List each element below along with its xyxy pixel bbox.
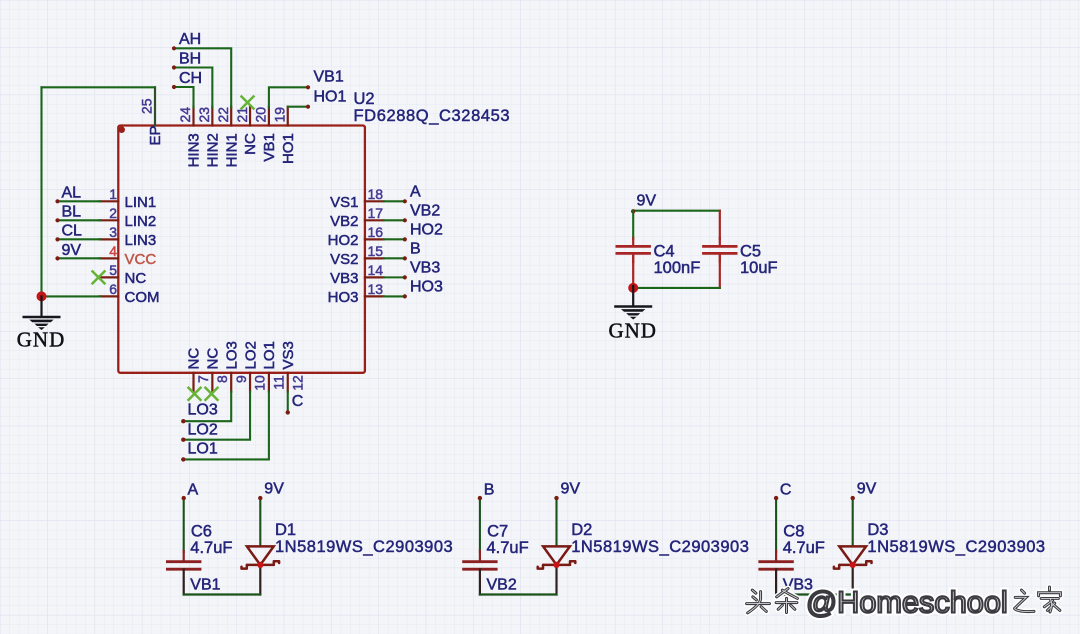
svg-text:VS2: VS2 — [330, 251, 358, 268]
pin name VB2 — [330, 213, 358, 230]
svg-text:9: 9 — [233, 375, 249, 383]
svg-text:9V: 9V — [561, 481, 581, 498]
svg-text:VB3: VB3 — [330, 270, 358, 287]
pin number 4 — [109, 243, 117, 259]
no-connect X on pin 21 — [241, 96, 255, 110]
label D2 — [571, 521, 592, 539]
svg-text:9V: 9V — [62, 242, 82, 259]
pin number 17 — [368, 205, 384, 221]
reference designator U2 — [354, 90, 375, 108]
svg-text:8: 8 — [214, 375, 230, 383]
value 10uF — [740, 259, 778, 277]
pin 14 VB3 stub right — [365, 276, 384, 278]
pin 2 LIN2 stub left — [100, 219, 119, 221]
svg-text:VB3: VB3 — [410, 259, 440, 276]
svg-text:100nF: 100nF — [654, 259, 701, 277]
wire net BL to pin 2 — [55, 218, 100, 222]
value 4.7uF — [190, 539, 232, 557]
capacitor C6 — [167, 551, 200, 595]
net label 9V decoupling — [637, 193, 657, 210]
svg-text:HIN3: HIN3 — [186, 133, 203, 167]
svg-text:HIN1: HIN1 — [223, 133, 240, 167]
wire net AL to pin 1 — [55, 199, 100, 203]
svg-text:U2: U2 — [354, 90, 375, 108]
svg-text:HIN2: HIN2 — [205, 133, 222, 167]
wire net CH to pin — [172, 85, 194, 108]
pin number 19 — [271, 107, 287, 123]
svg-text:1N5819WS_C2903903: 1N5819WS_C2903903 — [571, 538, 749, 556]
net label A — [410, 183, 421, 200]
svg-text:9V: 9V — [857, 481, 877, 498]
pin name VB3 — [330, 270, 358, 287]
pin name VCC — [125, 251, 157, 268]
pin 5 NC stub left — [100, 276, 119, 278]
pin number 20 — [253, 107, 269, 123]
pin name NC — [242, 133, 259, 155]
pin 10 LO2 stub bottom — [249, 373, 251, 392]
svg-text:LIN2: LIN2 — [125, 213, 157, 230]
svg-text:LO3: LO3 — [223, 341, 240, 369]
pin name VS3 — [280, 341, 297, 369]
pin number 2 — [109, 205, 117, 221]
junction dot decoupling GND — [628, 283, 638, 293]
net label HO3 — [410, 278, 443, 295]
wire C4 branch upper — [632, 211, 634, 239]
svg-text:NC: NC — [186, 348, 203, 370]
wire C6 to D1 bottom — [184, 593, 261, 595]
svg-text:LO1: LO1 — [261, 341, 278, 369]
svg-text:2: 2 — [109, 205, 117, 221]
net label HO2 — [410, 221, 443, 238]
capacitor C8 — [760, 551, 793, 595]
value 1N5819WS_C2903903 — [571, 538, 749, 556]
wire net A bootstrap — [182, 496, 186, 552]
wire net LO2 — [181, 392, 250, 442]
pin number 7 — [195, 375, 211, 383]
pin name LIN1 — [125, 194, 157, 211]
svg-text:B: B — [484, 481, 495, 498]
svg-text:C7: C7 — [487, 522, 508, 540]
svg-text:1N5819WS_C2903903: 1N5819WS_C2903903 — [275, 538, 453, 556]
pin name HO2 — [328, 232, 359, 249]
net label A — [188, 481, 199, 498]
svg-text:VB1: VB1 — [261, 133, 278, 161]
svg-text:NC: NC — [205, 348, 222, 370]
pin name LIN2 — [125, 213, 157, 230]
pin number 11 — [271, 375, 287, 390]
pin name VS2 — [330, 251, 358, 268]
watermark — [747, 585, 1061, 620]
svg-text:C5: C5 — [740, 243, 761, 261]
net label BL — [62, 204, 82, 221]
pin 19 HO1 stub top — [287, 107, 289, 126]
pin name HIN3 — [186, 133, 203, 167]
label C8 — [783, 522, 804, 540]
wire net LO1 — [181, 392, 269, 462]
GND label left — [17, 328, 66, 352]
svg-text:GND: GND — [17, 328, 66, 352]
svg-text:VCC: VCC — [125, 251, 157, 268]
svg-text:13: 13 — [368, 281, 384, 297]
wire net C from pin 12 VS3 — [286, 392, 290, 415]
no-connect X on pin 7 — [188, 387, 202, 401]
svg-text:C: C — [780, 481, 792, 498]
svg-text:HO2: HO2 — [410, 221, 443, 238]
wire net VB3 right — [384, 275, 407, 279]
pin number 10 — [252, 375, 268, 391]
wire net HO1 to pin 19 — [288, 105, 310, 109]
svg-text:COM: COM — [125, 289, 160, 306]
pin name HIN2 — [205, 133, 222, 167]
svg-text:1N5819WS_C2903903: 1N5819WS_C2903903 — [867, 538, 1045, 556]
svg-text:BL: BL — [62, 204, 82, 221]
pin number 8 — [214, 375, 230, 383]
net label AL — [62, 185, 82, 202]
pin number 23 — [196, 107, 212, 123]
pin 18 VS1 stub right — [365, 200, 384, 202]
wire net CL to pin 3 — [55, 237, 100, 241]
wire GND rail vertical — [40, 87, 42, 296]
svg-text:HO2: HO2 — [328, 232, 359, 249]
no-connect X on pin 8 — [205, 387, 219, 401]
pin 16 HO2 stub right — [365, 238, 384, 240]
pin number 9 — [233, 375, 249, 383]
net label 9V — [62, 242, 82, 259]
ground symbol right — [615, 286, 651, 320]
svg-text:BH: BH — [179, 50, 201, 67]
net label VB2 — [487, 577, 517, 594]
net label LO3 — [188, 402, 218, 419]
svg-text:VB1: VB1 — [314, 69, 344, 86]
wire 9V top rail — [631, 209, 720, 213]
pin name HO1 — [280, 133, 297, 164]
svg-text:NC: NC — [125, 270, 147, 287]
svg-text:@Homeschool: @Homeschool — [806, 585, 1008, 620]
label D3 — [867, 521, 888, 539]
svg-text:5: 5 — [109, 262, 117, 278]
net label VB1 — [190, 577, 220, 594]
net label 9V over D2 — [561, 481, 581, 498]
value 1N5819WS_C2903903 — [867, 538, 1045, 556]
pin 1 LIN1 stub left — [100, 200, 119, 202]
diode D3 1N5819WS schottky — [834, 546, 872, 594]
net label HO1 top — [314, 89, 347, 106]
svg-text:4: 4 — [109, 243, 117, 259]
ground symbol left — [24, 296, 60, 330]
label C5 — [740, 243, 761, 261]
svg-text:CH: CH — [179, 70, 202, 87]
wire net BH to pin — [172, 65, 212, 107]
wire net HO2 right — [384, 237, 407, 241]
diode D1 1N5819WS schottky — [242, 546, 280, 594]
net label B — [484, 481, 495, 498]
svg-text:C6: C6 — [191, 522, 212, 540]
pin name NC — [186, 348, 203, 370]
pin 6 COM stub left — [100, 295, 119, 297]
pin 4 VCC stub left — [100, 257, 119, 259]
net label VB1 top — [314, 69, 344, 86]
wire 9V bottom rail — [633, 287, 720, 289]
capacitor C5 — [704, 238, 737, 262]
svg-text:D2: D2 — [571, 521, 592, 539]
label C4 — [654, 243, 675, 261]
net label 9V over D3 — [857, 481, 877, 498]
pin name NC — [205, 348, 222, 370]
svg-text:9V: 9V — [264, 481, 284, 498]
value 4.7uF — [783, 539, 825, 557]
net label CH — [179, 70, 202, 87]
svg-text:HO1: HO1 — [280, 133, 297, 164]
net label LO1 — [188, 441, 218, 458]
pin number 21 — [234, 107, 250, 123]
svg-text:CL: CL — [62, 223, 83, 240]
pin 15 VS2 stub right — [365, 257, 384, 259]
label C7 — [487, 522, 508, 540]
svg-text:VS1: VS1 — [330, 194, 358, 211]
svg-text:LIN1: LIN1 — [125, 194, 157, 211]
net label AH — [179, 31, 201, 48]
pin number 5 — [109, 262, 117, 278]
pin name NC — [125, 270, 147, 287]
svg-text:NC: NC — [242, 133, 259, 155]
svg-text:6: 6 — [109, 281, 117, 297]
wire C8 to D3 bottom — [776, 593, 853, 595]
net label BH — [179, 50, 201, 67]
wire C4 branch lower — [632, 254, 634, 288]
svg-text:25: 25 — [139, 98, 155, 114]
pin 17 VB2 stub right — [365, 219, 384, 221]
pin name LO2 — [242, 341, 259, 369]
svg-text:C4: C4 — [654, 243, 675, 261]
pin number 18 — [368, 186, 384, 202]
svg-text:HO1: HO1 — [314, 89, 347, 106]
svg-text:AL: AL — [62, 185, 82, 202]
svg-text:C: C — [292, 393, 304, 410]
svg-text:HO3: HO3 — [328, 289, 359, 306]
part value FD6288Q_C328453 — [354, 107, 511, 125]
net label VB3 — [410, 259, 440, 276]
wire COM pin 6 to GND rail — [42, 295, 101, 297]
net label 9V over D1 — [264, 481, 284, 498]
svg-text:VB1: VB1 — [190, 577, 220, 594]
svg-text:23: 23 — [196, 107, 212, 123]
value 4.7uF — [487, 539, 529, 557]
svg-text:A: A — [188, 481, 199, 498]
wire net AH to pin — [172, 46, 231, 107]
pin 3 LIN3 stub left — [100, 238, 119, 240]
pin number 14 — [368, 262, 384, 278]
wire net B bootstrap — [478, 496, 482, 552]
svg-text:EP: EP — [147, 125, 164, 145]
svg-text:FD6288Q_C328453: FD6288Q_C328453 — [354, 107, 511, 125]
pin name HIN1 — [223, 133, 240, 167]
net label B — [410, 240, 421, 257]
net label C bottom of pin 12 — [292, 393, 304, 410]
svg-text:1: 1 — [109, 186, 117, 202]
pin 12 VS3 stub bottom — [287, 373, 289, 392]
wire C5 branch upper — [719, 211, 721, 239]
svg-text:4.7uF: 4.7uF — [190, 539, 232, 557]
net label CL — [62, 223, 83, 240]
wire 9V to D3 — [851, 496, 855, 547]
svg-text:VS3: VS3 — [280, 341, 297, 369]
GND label right — [608, 319, 657, 343]
svg-text:GND: GND — [608, 319, 657, 343]
svg-text:LIN3: LIN3 — [125, 232, 157, 249]
label C6 — [191, 522, 212, 540]
svg-text:VB2: VB2 — [330, 213, 358, 230]
wire net C bootstrap — [774, 496, 778, 552]
pin name VS1 — [330, 194, 358, 211]
wire net 9V to pin 4 — [55, 256, 100, 260]
svg-text:3: 3 — [109, 224, 117, 240]
svg-text:18: 18 — [368, 186, 384, 202]
pin 11 LO1 stub bottom — [268, 373, 270, 392]
svg-text:12: 12 — [289, 375, 305, 391]
pin 13 HO3 stub right — [365, 295, 384, 297]
pin name COM — [125, 289, 160, 306]
wire 9V to D2 — [554, 496, 558, 547]
wire C7 to D2 bottom — [480, 593, 557, 595]
wire net A right — [384, 199, 407, 203]
svg-text:19: 19 — [271, 107, 287, 123]
svg-text:11: 11 — [271, 375, 287, 390]
pin number 16 — [368, 224, 384, 240]
pin name VB1 — [261, 133, 278, 161]
svg-text:7: 7 — [195, 375, 211, 383]
capacitor C7 — [464, 551, 497, 595]
pin name LO1 — [261, 341, 278, 369]
svg-text:LO2: LO2 — [242, 341, 259, 369]
junction dot GND rail — [37, 291, 47, 301]
svg-text:4.7uF: 4.7uF — [487, 539, 529, 557]
svg-text:LO1: LO1 — [188, 441, 218, 458]
pin number 12 — [289, 375, 305, 391]
wire net LO3 — [181, 392, 231, 424]
svg-text:20: 20 — [253, 107, 269, 123]
wire net HO3 right — [384, 294, 407, 298]
svg-text:LO2: LO2 — [188, 422, 218, 439]
svg-text:LO3: LO3 — [188, 402, 218, 419]
pin 7 NC stub bottom — [192, 373, 194, 392]
label D1 — [275, 521, 296, 539]
wire net B right — [384, 256, 407, 260]
svg-text:D1: D1 — [275, 521, 296, 539]
wire 9V to D1 — [258, 496, 262, 547]
svg-text:C8: C8 — [783, 522, 804, 540]
capacitor C4 — [617, 238, 650, 262]
pin 8 NC stub bottom — [211, 373, 213, 392]
wire net VB2 right — [384, 218, 407, 222]
svg-text:17: 17 — [368, 205, 384, 221]
wire C5 branch lower — [719, 254, 721, 288]
svg-text:10: 10 — [252, 375, 268, 391]
net label VB3 — [783, 577, 813, 594]
net label VB2 — [410, 202, 440, 219]
pin number 13 — [368, 281, 384, 297]
pin number 15 — [368, 243, 384, 259]
value 100nF — [654, 259, 701, 277]
svg-text:10uF: 10uF — [740, 259, 778, 277]
pin 24 HIN3 stub top — [192, 107, 194, 126]
svg-text:24: 24 — [177, 107, 193, 123]
pin number 24 — [177, 107, 193, 123]
net label C — [780, 481, 792, 498]
pin 23 HIN2 stub top — [211, 107, 213, 126]
diode D2 1N5819WS schottky — [538, 546, 576, 594]
pin name EP — [147, 125, 164, 145]
pin name LIN3 — [125, 232, 157, 249]
pin 22 HIN1 stub top — [230, 107, 232, 126]
svg-text:VB2: VB2 — [410, 202, 440, 219]
svg-text:14: 14 — [368, 262, 384, 278]
svg-text:4.7uF: 4.7uF — [783, 539, 825, 557]
svg-text:A: A — [410, 183, 421, 200]
svg-text:B: B — [410, 240, 421, 257]
pin 25 EP stub — [154, 87, 156, 125]
svg-text:AH: AH — [179, 31, 201, 48]
pin 9 LO3 stub bottom — [230, 373, 232, 392]
pin 21 NC stub top — [249, 107, 251, 126]
wire net VB1 to pin 20 — [269, 85, 310, 107]
svg-text:16: 16 — [368, 224, 384, 240]
pin number 25 — [139, 98, 155, 114]
pin name HO3 — [328, 289, 359, 306]
pin number 1 — [109, 186, 117, 202]
wire EP pin25 to GND rail — [42, 86, 156, 88]
pin number 3 — [109, 224, 117, 240]
svg-text:22: 22 — [215, 107, 231, 123]
IC U2 FD6288Q gate driver body — [118, 126, 365, 373]
svg-text:HO3: HO3 — [410, 278, 443, 295]
net label LO2 — [188, 422, 218, 439]
pin 20 VB1 stub top — [268, 107, 270, 126]
pin number 22 — [215, 107, 231, 123]
svg-text:9V: 9V — [637, 193, 657, 210]
svg-text:VB2: VB2 — [487, 577, 517, 594]
pin name LO3 — [223, 341, 240, 369]
svg-text:15: 15 — [368, 243, 384, 259]
pin number 6 — [109, 281, 117, 297]
no-connect X on pin 5 — [92, 270, 106, 284]
value 1N5819WS_C2903903 — [275, 538, 453, 556]
svg-text:D3: D3 — [867, 521, 888, 539]
